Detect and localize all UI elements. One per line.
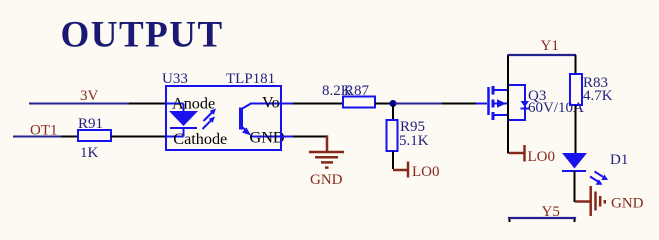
svg-text:1K: 1K [80,145,99,161]
svg-text:LO0: LO0 [412,164,440,180]
wire OT1 [14,136,78,138]
svg-text:GND: GND [310,172,343,188]
ground GND (below U33) [309,137,344,189]
svg-text:GND: GND [250,129,285,147]
svg-text:4.7K: 4.7K [583,88,613,104]
svg-text:3V: 3V [80,88,99,104]
wire junction to R95 [392,105,394,120]
svg-text:Anode: Anode [172,95,215,113]
svg-text:GND: GND [611,196,644,212]
transistor Q3 [476,85,529,120]
svg-text:Cathode: Cathode [173,130,227,148]
resistor R87 [343,97,390,108]
LED inside U33 [167,104,198,137]
wire drain and source (vertical) [507,56,509,153]
resistor R83 [570,55,582,153]
svg-text:5.1K: 5.1K [399,133,429,149]
resistor R95 [387,120,398,169]
light arrows [203,109,217,130]
wire U33 GND to ground [281,136,326,138]
wire D1 to ground [574,172,576,201]
svg-text:OUTPUT: OUTPUT [61,14,224,55]
optocoupler U33 box [166,86,281,150]
pin stub below Y5 right [574,219,576,222]
port LO0 (lower) [393,162,440,181]
svg-text:TLP181: TLP181 [226,71,275,87]
wire U33 Vo to R87 [281,103,343,105]
phototransistor [241,104,280,137]
light arrows D1 [590,172,608,185]
pin stub below Y5 left [509,219,511,222]
svg-text:Y1: Y1 [541,38,559,54]
port LO0 (source) [509,145,555,165]
wire Y5 [509,217,575,219]
ground GND (right, rotated) [575,186,644,216]
diode D1 (LED) [562,153,587,171]
svg-text:D1: D1 [610,152,628,168]
svg-text:LO0: LO0 [528,149,556,165]
wire 3V rail [30,103,166,105]
svg-text:Vo: Vo [262,94,280,112]
resistor R91 [78,130,166,141]
svg-text:U33: U33 [162,71,188,87]
wire Y1 [509,54,575,56]
wire junction to gate [396,103,476,105]
svg-text:R91: R91 [78,116,103,132]
junction node [390,100,397,107]
